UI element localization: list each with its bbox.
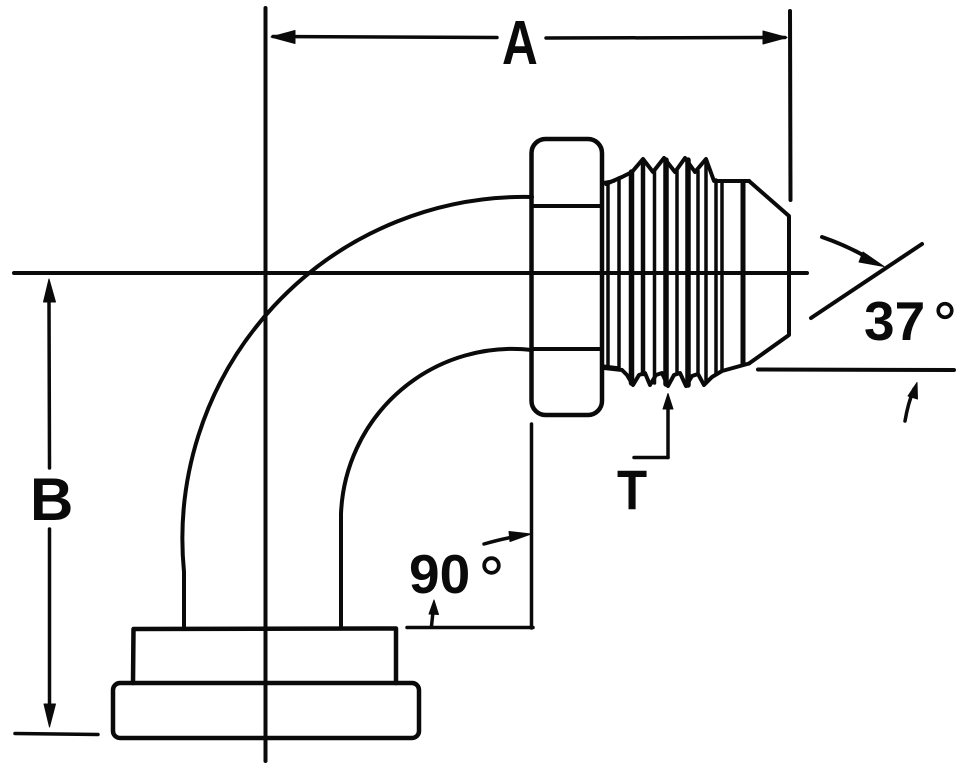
vertical centerline — [264, 8, 268, 761]
thread root bottom zigzag profile — [604, 364, 749, 387]
dimension A line right segment with arrowhead — [546, 31, 787, 44]
nose cone outline (37 degree flare) — [749, 181, 789, 364]
90 degree vertical extension line below hex — [530, 424, 534, 628]
dimension A line left segment with arrowhead — [271, 31, 497, 44]
90 degree horizontal line — [407, 626, 533, 630]
elbow outer arc — [182, 197, 532, 626]
svg-text:90: 90 — [409, 543, 470, 605]
svg-text:37: 37 — [864, 290, 925, 352]
thread flank vertical lines — [608, 160, 743, 385]
horizontal centerline — [14, 271, 807, 275]
thread crest top zigzag profile — [606, 158, 749, 184]
T leader arrow pointing up at thread root — [634, 394, 673, 458]
37 degree leader arrow onto slant line — [822, 237, 884, 267]
dimension B bottom tick line — [15, 734, 98, 735]
shank shoulder bottom edge between hex and threads — [602, 366, 618, 368]
hex nut outline — [532, 139, 603, 415]
elbow inner arc — [341, 349, 532, 626]
dimension B line lower segment with down arrowhead — [44, 529, 56, 727]
37 degree small up arrow below reference line — [905, 383, 918, 422]
dimension A right extension line — [788, 11, 793, 200]
flange upper step — [133, 629, 396, 684]
degree symbol of 37 — [938, 304, 952, 318]
90 degree leader arrow to vertical line — [484, 532, 531, 545]
svg-text:A: A — [502, 8, 538, 78]
hex nut lower facet line — [532, 347, 601, 351]
dimension B line upper segment with up arrowhead — [44, 279, 56, 468]
hex nut upper facet line — [532, 204, 601, 208]
37 degree horizontal reference line — [758, 368, 954, 373]
flange lower plate — [113, 683, 419, 738]
degree symbol of 90 — [484, 558, 499, 573]
svg-text:B: B — [30, 466, 73, 533]
shank shoulder top edge between hex and threads — [602, 181, 614, 183]
37 degree slant line along flare seat — [811, 244, 922, 318]
90 degree small up arrow on horizontal line — [429, 600, 439, 626]
svg-text:T: T — [617, 459, 647, 522]
